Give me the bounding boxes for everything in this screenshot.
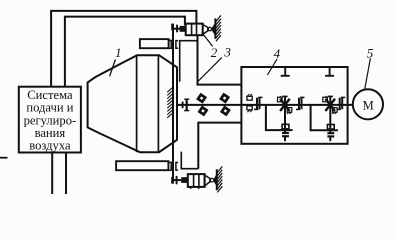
top burner body division 2 [196, 24, 198, 36]
bottom duct gland bracket right [176, 163, 178, 171]
bearing below bevel right 2 [332, 108, 337, 114]
leader line 4 [267, 59, 277, 75]
top burner black hub [180, 26, 186, 32]
bottom duct gland bracket left [169, 162, 171, 170]
bottom support hatch [217, 166, 222, 192]
plate end bar bottom [171, 177, 173, 184]
bottom air duct [116, 161, 168, 170]
bevel gear cross 2 [325, 99, 335, 111]
leader line 2 [202, 33, 213, 47]
svg-text:3: 3 [223, 44, 231, 59]
top burner coupling bar [176, 25, 178, 33]
bottom burner roller bowtie right [213, 174, 217, 187]
top burner body [186, 24, 203, 36]
air supply box (Система подачи и регулирования воздуха) [19, 87, 81, 153]
bottom burner coupling bar [176, 176, 178, 184]
bottom burner body division 1 [193, 174, 195, 187]
bearing above bevel left 2 [323, 96, 329, 102]
outer air pipe (box top to top burner) [51, 11, 196, 87]
coupling 2 [296, 97, 305, 109]
stray page mark left edge [0, 157, 8, 159]
top burner roller bowtie right [211, 23, 215, 36]
top burner nozzle cone [203, 25, 208, 35]
top duct gland bracket right [176, 41, 178, 49]
top burner 2: stub shaft from plate [173, 28, 180, 30]
lower takeoff line left [266, 105, 293, 130]
bottom burner feet [190, 187, 192, 189]
input bearing (at left wall) [247, 94, 252, 112]
bottom burner roller circle [210, 178, 214, 182]
top burner roller bowtie left [208, 27, 209, 32]
bottom support wall [216, 169, 218, 190]
frame bracket under top duct [180, 41, 198, 82]
lower takeoff line right [311, 105, 338, 130]
frame wall from bottom burner to gearbox [198, 123, 241, 169]
frame wall from top burner to gearbox [198, 35, 242, 84]
drum inner rib right [157, 55, 159, 152]
bearing above bevel left [278, 96, 284, 102]
bottom burner body [188, 174, 205, 187]
plate end bar top [171, 24, 173, 31]
main drive shaft (plate to gearbox) [177, 104, 242, 106]
vertical shaft 2 top cap [328, 95, 333, 97]
pipe leg left (below box) [51, 153, 53, 195]
worm pair 2 upper [327, 125, 334, 130]
pipe leg right (below box) [65, 153, 67, 195]
svg-text:2: 2 [211, 45, 218, 60]
svg-text:воздуха: воздуха [29, 138, 71, 152]
bottom burner nozzle cone [205, 175, 210, 186]
gearbox main shaft [241, 104, 353, 106]
drum 1 (body outline) [88, 55, 177, 152]
seal hatch at shaft passage [167, 87, 172, 117]
bottom burner: stub shaft from plate [173, 179, 181, 181]
shaft coupling at plate [182, 102, 184, 109]
svg-text:1: 1 [115, 45, 122, 60]
gearbox 4 housing [241, 67, 347, 144]
coupling 1 [254, 97, 263, 109]
top burner roller circle [208, 27, 211, 30]
bottom burner body division 2 [198, 174, 200, 187]
frame bracket over bottom burner [181, 152, 198, 169]
bottom burner roller bowtie left [210, 178, 211, 183]
top burner body division 1 [191, 24, 193, 36]
drum inner rib left [136, 55, 138, 152]
leader line 5 [365, 58, 371, 89]
hanger support right [325, 67, 334, 76]
top air duct [140, 39, 169, 48]
svg-text:M: M [363, 99, 374, 113]
inner air pipe (box top to top burner) [65, 17, 185, 87]
front plate line A [172, 24, 174, 184]
bottom burner black hub [181, 177, 187, 183]
hanger support left [281, 67, 290, 76]
vertical shaft 2 [329, 96, 331, 141]
vertical shaft 1 top cap [282, 95, 287, 97]
top support wall [214, 18, 216, 39]
universal joint 1 [198, 95, 207, 115]
bearing below bevel right [287, 108, 292, 114]
leader line 3 [197, 58, 222, 83]
worm pair 1 upper [282, 124, 289, 129]
worm pair 2 lower [327, 132, 334, 137]
worm pair 1 lower [282, 132, 289, 137]
universal joint 2 [221, 94, 229, 114]
coupling 3 [337, 97, 346, 109]
vertical shaft 1 [284, 96, 286, 141]
svg-text:4: 4 [274, 46, 281, 61]
bevel gear cross 1 [280, 99, 290, 111]
motor 5 circle [353, 89, 383, 119]
top duct gland bracket left [169, 40, 171, 48]
top support hatch [216, 15, 221, 41]
leader line 1 [110, 60, 116, 77]
